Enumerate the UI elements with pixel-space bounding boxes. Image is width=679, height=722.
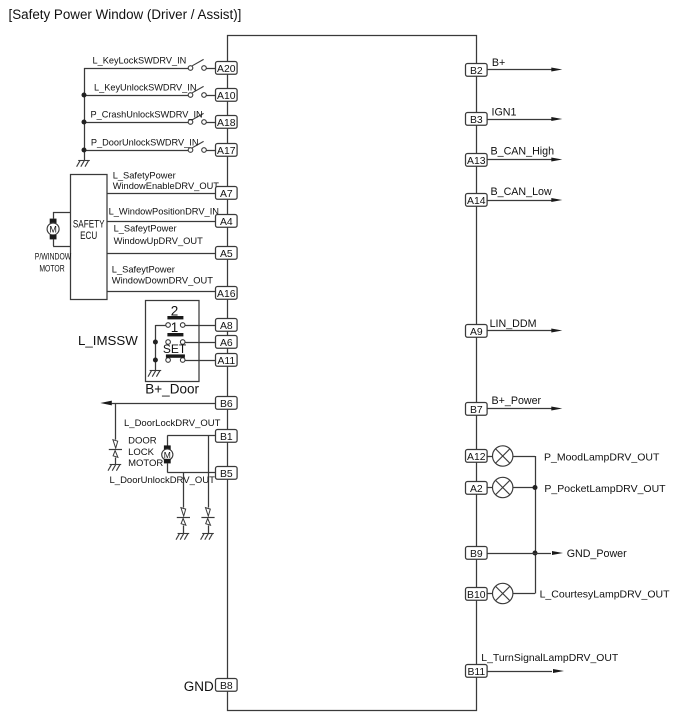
pin A10 xyxy=(216,89,238,102)
wire ECU to A7 xyxy=(107,193,216,195)
svg-text:A11: A11 xyxy=(217,356,235,367)
label L_SafetyPower WindowEnableDRV_OUT xyxy=(113,170,220,191)
wire B1 xyxy=(167,436,216,446)
lamp A12 xyxy=(493,446,513,466)
wire B11 output xyxy=(487,671,552,673)
switch button 1 xyxy=(166,333,185,344)
pin B8 xyxy=(216,679,238,692)
svg-text:B5: B5 xyxy=(220,469,233,480)
svg-text:P_CrashUnlockSWDRV_IN: P_CrashUnlockSWDRV_IN xyxy=(91,110,203,120)
pin B1 xyxy=(216,430,238,443)
svg-text:B11: B11 xyxy=(467,667,485,678)
svg-text:A7: A7 xyxy=(220,189,233,200)
svg-text:M: M xyxy=(164,450,171,460)
wire A10 input xyxy=(84,95,216,97)
svg-text:L_CourtesyLampDRV_OUT: L_CourtesyLampDRV_OUT xyxy=(540,588,671,600)
ground IMSSW xyxy=(148,371,161,377)
arrow B2 xyxy=(551,68,562,72)
pin B3 xyxy=(466,113,488,126)
wire input bus vertical xyxy=(84,68,86,160)
svg-text:B7: B7 xyxy=(470,405,483,416)
arrow B3 xyxy=(551,117,562,121)
pin A17 xyxy=(216,144,238,157)
svg-text:WindowDownDRV_OUT: WindowDownDRV_OUT xyxy=(112,276,213,286)
wire A14 output xyxy=(487,200,552,202)
wire ECU to A16 xyxy=(107,291,216,293)
motor door lock M2 xyxy=(162,445,173,463)
pin B9 xyxy=(466,547,488,560)
label window motor xyxy=(35,251,72,273)
wire B5 ground drop xyxy=(183,472,185,507)
label P_CrashUnlockSWDRV_IN xyxy=(91,110,203,120)
svg-text:P/WINDOW: P/WINDOW xyxy=(35,251,72,261)
svg-text:A2: A2 xyxy=(470,484,483,495)
svg-text:L_SafetyPower: L_SafetyPower xyxy=(113,170,176,180)
junction bus dot xyxy=(82,93,87,98)
svg-text:A12: A12 xyxy=(467,452,486,463)
svg-text:A9: A9 xyxy=(470,327,483,338)
svg-text:1: 1 xyxy=(171,320,179,335)
IMS switch box xyxy=(146,301,200,382)
svg-text:B_CAN_Low: B_CAN_Low xyxy=(491,186,552,198)
wire A9 output xyxy=(487,330,552,332)
svg-text:A14: A14 xyxy=(467,196,486,207)
connector B6 branch xyxy=(109,440,122,458)
wire B6 drop xyxy=(115,403,117,440)
arrow A14 xyxy=(551,198,562,202)
ground input bus xyxy=(77,161,90,167)
wire to ground 1 xyxy=(183,525,185,533)
label LIN_DDM xyxy=(490,318,537,330)
pin A6 xyxy=(216,336,238,349)
switch P_CrashUnlockSWDRV_IN xyxy=(188,113,206,124)
pin B5 xyxy=(216,467,238,480)
svg-text:L_KeyLockSWDRV_IN: L_KeyLockSWDRV_IN xyxy=(93,56,187,66)
svg-text:A13: A13 xyxy=(467,156,486,167)
label L_DoorUnlockDRV_OUT xyxy=(110,475,216,486)
junction IMSSW dot A11 xyxy=(153,358,158,363)
label L_CourtesyLampDRV_OUT xyxy=(540,588,671,600)
label button 1 xyxy=(171,320,179,335)
switch L_KeyUnlockSWDRV_IN xyxy=(188,86,206,97)
wire IMSSW bus xyxy=(155,325,165,370)
label L_WindowPositionDRV_IN xyxy=(109,207,219,217)
svg-text:WindowEnableDRV_OUT: WindowEnableDRV_OUT xyxy=(113,181,220,191)
wire B9 xyxy=(487,553,551,555)
label L_KeyLockSWDRV_IN xyxy=(93,56,187,66)
wire A13 output xyxy=(487,159,552,161)
arrow GND_Power xyxy=(552,551,563,555)
svg-text:GND: GND xyxy=(184,679,214,694)
label B+_Power xyxy=(492,395,542,407)
svg-text:P_MoodLampDRV_OUT: P_MoodLampDRV_OUT xyxy=(544,451,660,463)
svg-text:L_DoorUnlockDRV_OUT: L_DoorUnlockDRV_OUT xyxy=(110,475,216,486)
junction lamp bus dot A2 xyxy=(533,485,538,490)
svg-text:B8: B8 xyxy=(220,681,233,692)
wire B6 xyxy=(112,403,217,405)
svg-text:P_DoorUnlockSWDRV_IN: P_DoorUnlockSWDRV_IN xyxy=(91,138,199,148)
pin A12 xyxy=(466,450,488,463)
wire A12 to lamp xyxy=(487,456,535,458)
wire to ground 2 xyxy=(208,525,210,533)
pin B7 xyxy=(466,403,488,416)
svg-text:A5: A5 xyxy=(220,249,233,260)
wire motor top lead xyxy=(53,212,70,219)
svg-text:[Safety Power Window (Driver /: [Safety Power Window (Driver / Assist)] xyxy=(9,7,242,22)
svg-text:A17: A17 xyxy=(217,146,236,157)
svg-text:B+_Door: B+_Door xyxy=(145,382,199,397)
label B+_Door xyxy=(145,382,199,397)
pin A16 xyxy=(216,287,238,300)
wire A17 input xyxy=(84,150,216,152)
junction lamp bus dot B9 xyxy=(533,551,538,556)
label L_IMSSW xyxy=(78,333,138,348)
label L_DoorLockDRV_OUT xyxy=(124,418,221,429)
svg-text:B6: B6 xyxy=(220,399,233,410)
svg-text:2: 2 xyxy=(171,303,179,318)
pin A14 xyxy=(466,194,488,207)
junction bus dot xyxy=(82,148,87,153)
svg-text:L_KeyUnlockSWDRV_IN: L_KeyUnlockSWDRV_IN xyxy=(94,83,196,93)
main module box xyxy=(228,36,477,711)
wire B3 output xyxy=(487,119,552,121)
wire A20 input xyxy=(84,68,216,70)
svg-text:SET: SET xyxy=(163,342,187,356)
svg-text:LIN_DDM: LIN_DDM xyxy=(490,318,537,330)
wire button to A6 xyxy=(185,342,216,344)
svg-text:MOTOR: MOTOR xyxy=(39,263,64,273)
label P_PocketLampDRV_OUT xyxy=(544,483,666,495)
wire B7 output xyxy=(487,408,552,410)
svg-text:WindowUpDRV_OUT: WindowUpDRV_OUT xyxy=(114,236,204,246)
label GND_Power xyxy=(567,548,627,560)
ground B6 branch xyxy=(108,465,121,471)
ground B1 branch 2 xyxy=(201,534,214,540)
title xyxy=(9,7,242,22)
label L_SafeytPower WindowUpDRV_OUT xyxy=(114,223,204,246)
motor window M1 xyxy=(47,219,59,240)
pin B11 xyxy=(466,665,488,678)
wire button to A11 xyxy=(185,360,216,362)
svg-text:LOCK: LOCK xyxy=(128,447,155,458)
svg-text:GND_Power: GND_Power xyxy=(567,548,627,560)
arrow B11 xyxy=(553,669,564,673)
svg-text:B10: B10 xyxy=(467,590,486,601)
pin B10 xyxy=(466,588,488,601)
svg-text:B3: B3 xyxy=(470,115,483,126)
lamp B10 xyxy=(493,583,513,603)
pin A8 xyxy=(216,319,238,332)
svg-text:ECU: ECU xyxy=(80,230,97,243)
pin A20 xyxy=(216,62,238,75)
svg-text:IGN1: IGN1 xyxy=(492,106,517,118)
svg-text:L_SafeytPower: L_SafeytPower xyxy=(114,223,177,233)
label P_MoodLampDRV_OUT xyxy=(544,451,660,463)
pin A13 xyxy=(466,154,488,167)
svg-text:L_DoorLockDRV_OUT: L_DoorLockDRV_OUT xyxy=(124,418,221,429)
label button 2 xyxy=(171,303,179,318)
label L_KeyUnlockSWDRV_IN xyxy=(94,83,196,93)
junction bus dot xyxy=(82,120,87,125)
label IGN1 xyxy=(492,106,517,118)
safety ECU box U1 xyxy=(71,175,108,300)
label DOOR LOCK MOTOR xyxy=(128,436,163,469)
label GND xyxy=(184,679,214,694)
switch P_DoorUnlockSWDRV_IN xyxy=(188,141,206,152)
pin A9 xyxy=(466,325,488,338)
arrow A13 xyxy=(551,158,562,162)
pin A11 xyxy=(216,354,238,367)
svg-text:A4: A4 xyxy=(220,217,233,228)
pin B2 xyxy=(466,64,488,77)
wire B2 output xyxy=(487,69,552,71)
switch button 2 xyxy=(166,316,185,327)
switch button SET xyxy=(166,354,185,362)
svg-text:MOTOR: MOTOR xyxy=(128,458,163,469)
svg-text:A10: A10 xyxy=(217,91,236,102)
wire lamp bus xyxy=(535,456,537,594)
pin B6 xyxy=(216,397,238,410)
svg-text:A18: A18 xyxy=(217,118,236,129)
svg-text:A8: A8 xyxy=(220,321,233,332)
label L_SafeytPower WindowDownDRV_OUT xyxy=(112,265,213,286)
wire motor bottom lead xyxy=(53,239,70,246)
connector B5 branch 1 xyxy=(177,508,190,526)
switch L_KeyLockSWDRV_IN xyxy=(188,59,206,70)
junction IMSSW dot A6 xyxy=(153,340,158,345)
wire B6 drop lower xyxy=(115,458,117,465)
pin A2 xyxy=(466,482,488,495)
connector B1 branch 2 xyxy=(201,508,214,526)
arrow A9 xyxy=(551,329,562,333)
svg-text:M: M xyxy=(49,225,57,235)
lamp A2 xyxy=(493,477,513,497)
svg-text:B+_Power: B+_Power xyxy=(492,395,542,407)
wire ECU to A5 xyxy=(107,253,216,255)
pin A4 xyxy=(216,215,238,228)
wire A18 input xyxy=(84,122,216,124)
label B+ xyxy=(492,57,505,69)
wire B1 ground drop xyxy=(208,436,210,508)
pin A18 xyxy=(216,116,238,129)
svg-text:L_SafeytPower: L_SafeytPower xyxy=(112,265,175,275)
label L_TurnSignalLampDRV_OUT xyxy=(481,653,619,664)
svg-text:B9: B9 xyxy=(470,549,483,560)
pin A7 xyxy=(216,187,238,200)
ground B5 branch 1 xyxy=(176,534,189,540)
arrow B7 xyxy=(551,407,562,411)
wire B5 xyxy=(167,463,216,472)
svg-text:L_WindowPositionDRV_IN: L_WindowPositionDRV_IN xyxy=(109,207,219,217)
svg-text:DOOR: DOOR xyxy=(128,436,157,447)
arrow B6 left xyxy=(100,401,112,406)
wire button to A8 xyxy=(185,325,216,327)
svg-text:L_IMSSW: L_IMSSW xyxy=(78,333,138,348)
svg-text:L_TurnSignalLampDRV_OUT: L_TurnSignalLampDRV_OUT xyxy=(481,653,619,664)
label B_CAN_Low xyxy=(491,186,552,198)
svg-text:B1: B1 xyxy=(220,432,233,443)
label B_CAN_High xyxy=(491,146,555,158)
svg-text:B+: B+ xyxy=(492,57,505,69)
svg-text:A6: A6 xyxy=(220,338,233,349)
svg-text:B_CAN_High: B_CAN_High xyxy=(491,146,555,158)
svg-text:P_PocketLampDRV_OUT: P_PocketLampDRV_OUT xyxy=(544,483,666,495)
wire B10 to lamp xyxy=(487,593,535,595)
label P_DoorUnlockSWDRV_IN xyxy=(91,138,199,148)
label button SET xyxy=(163,342,187,356)
svg-text:A16: A16 xyxy=(217,289,236,300)
svg-text:A20: A20 xyxy=(217,64,236,75)
svg-text:B2: B2 xyxy=(470,66,483,77)
wire ECU to A4 xyxy=(107,221,216,223)
pin A5 xyxy=(216,247,238,260)
wire A2 to lamp xyxy=(487,487,535,489)
